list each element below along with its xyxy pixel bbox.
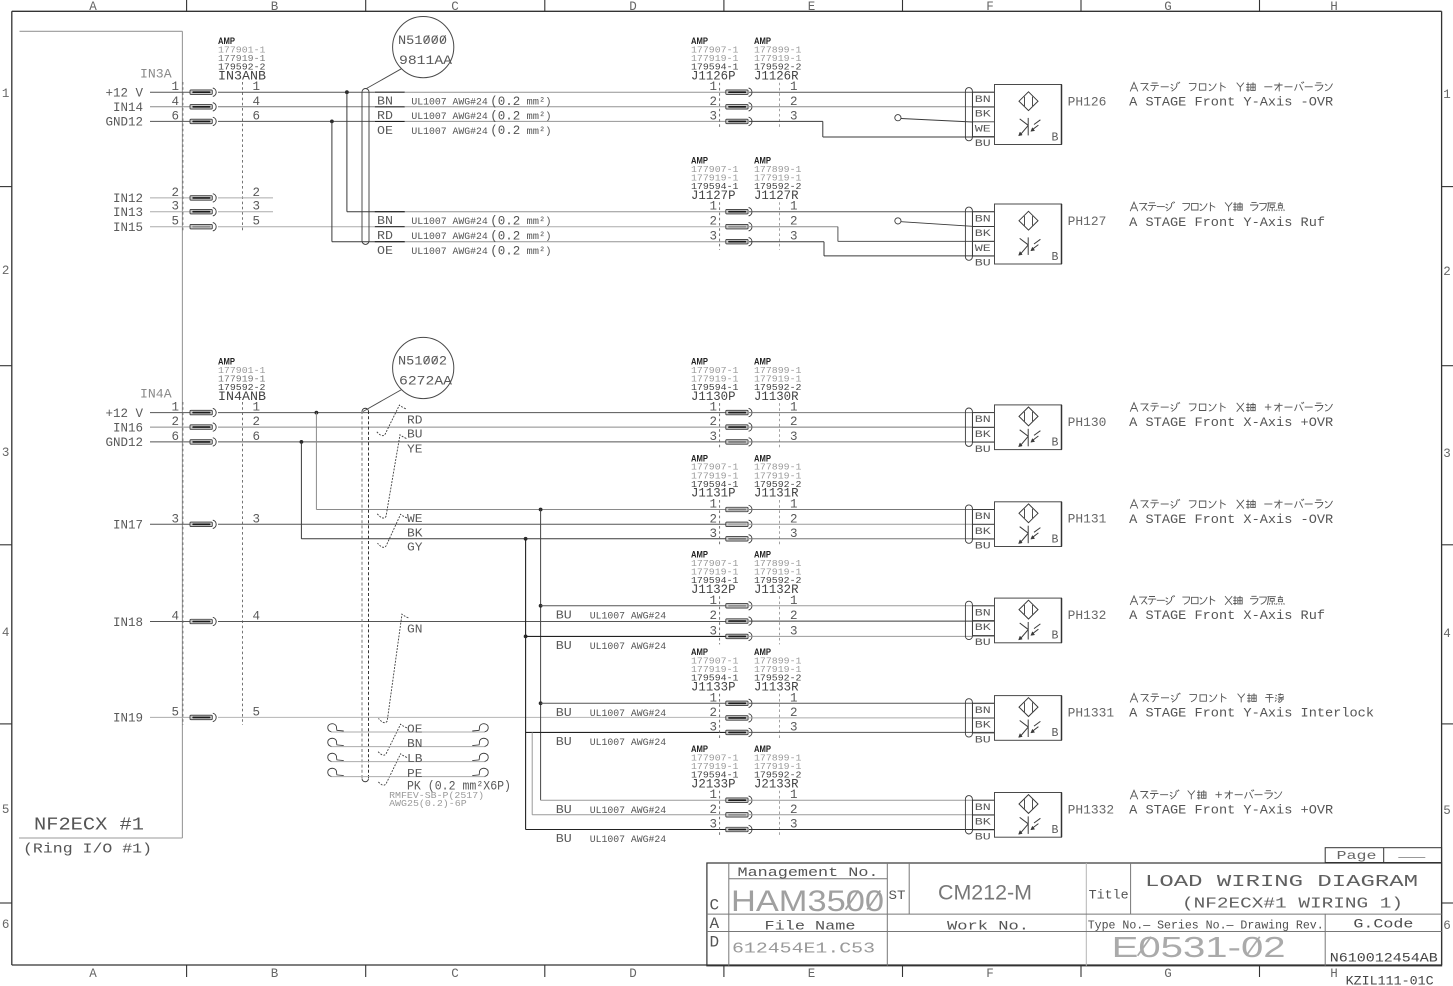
svg-text:3: 3 bbox=[171, 200, 179, 214]
svg-text:D: D bbox=[710, 934, 720, 952]
svg-text:BU: BU bbox=[556, 609, 572, 622]
svg-text:BN: BN bbox=[407, 738, 423, 751]
svg-text:KZIL111-01C: KZIL111-01C bbox=[1346, 975, 1434, 986]
svg-text:6272AA: 6272AA bbox=[399, 375, 453, 389]
svg-text:UL1007 AWG#24: UL1007 AWG#24 bbox=[411, 232, 487, 243]
svg-text:GND12: GND12 bbox=[105, 116, 143, 130]
svg-text:5: 5 bbox=[171, 215, 179, 229]
svg-text:BU: BU bbox=[556, 640, 572, 653]
svg-text:B: B bbox=[1052, 251, 1059, 264]
svg-text:3: 3 bbox=[709, 527, 717, 541]
svg-text:C: C bbox=[451, 0, 459, 14]
svg-text:BN: BN bbox=[975, 802, 991, 814]
svg-text:BN: BN bbox=[975, 414, 991, 426]
svg-text:PH126: PH126 bbox=[1068, 95, 1107, 109]
svg-text:6: 6 bbox=[2, 918, 10, 932]
svg-text:D: D bbox=[629, 0, 637, 14]
svg-text:WE: WE bbox=[407, 513, 423, 526]
svg-text:1: 1 bbox=[171, 401, 179, 415]
svg-text:PH1332: PH1332 bbox=[1068, 803, 1115, 817]
svg-text:B: B bbox=[1052, 436, 1059, 449]
svg-text:BU: BU bbox=[556, 736, 572, 749]
svg-text:A STAGE Front X-Axis Ruf: A STAGE Front X-Axis Ruf bbox=[1129, 608, 1325, 623]
svg-text:6: 6 bbox=[171, 109, 179, 123]
svg-text:BU: BU bbox=[975, 541, 991, 553]
svg-text:2: 2 bbox=[171, 186, 179, 200]
svg-text:E: E bbox=[808, 0, 816, 14]
svg-text:(0.2: (0.2 bbox=[490, 229, 520, 243]
svg-text:(Ring I/O #1): (Ring I/O #1) bbox=[23, 843, 152, 858]
svg-text:mm²): mm²) bbox=[527, 111, 552, 123]
svg-text:B: B bbox=[1052, 533, 1059, 546]
svg-text:Page: Page bbox=[1337, 849, 1377, 863]
svg-text:AWG25(0.2)-6P: AWG25(0.2)-6P bbox=[389, 798, 467, 809]
svg-text:UL1007 AWG#24: UL1007 AWG#24 bbox=[590, 806, 666, 817]
svg-text:PH127: PH127 bbox=[1068, 215, 1107, 229]
svg-text:BK: BK bbox=[975, 817, 992, 829]
svg-text:1: 1 bbox=[2, 87, 10, 101]
svg-text:5: 5 bbox=[171, 705, 179, 719]
svg-text:2: 2 bbox=[709, 215, 717, 229]
svg-text:612454E1.C53: 612454E1.C53 bbox=[732, 942, 875, 958]
svg-text:UL1007 AWG#24: UL1007 AWG#24 bbox=[590, 835, 666, 846]
svg-text:HAM3500: HAM3500 bbox=[731, 885, 884, 918]
svg-text:1: 1 bbox=[709, 200, 717, 214]
svg-text:3: 3 bbox=[709, 720, 717, 734]
svg-text:BU: BU bbox=[975, 735, 991, 747]
svg-text:RD: RD bbox=[377, 230, 393, 243]
svg-text:N51002: N51002 bbox=[398, 355, 447, 369]
svg-text:mm²): mm²) bbox=[527, 246, 552, 258]
svg-text:2: 2 bbox=[709, 95, 717, 109]
svg-text:UL1007 AWG#24: UL1007 AWG#24 bbox=[590, 709, 666, 720]
svg-text:A STAGE Front Y-Axis Interlock: A STAGE Front Y-Axis Interlock bbox=[1129, 706, 1374, 721]
svg-text:GND12: GND12 bbox=[105, 436, 143, 450]
svg-text:BN: BN bbox=[975, 213, 991, 225]
svg-text:OE: OE bbox=[377, 245, 393, 258]
svg-text:A STAGE Front Y-Axis +OVR: A STAGE Front Y-Axis +OVR bbox=[1129, 803, 1333, 818]
svg-text:3: 3 bbox=[709, 624, 717, 638]
svg-text:RD: RD bbox=[377, 110, 393, 123]
svg-text:File Name: File Name bbox=[765, 920, 856, 934]
svg-text:GN: GN bbox=[407, 623, 423, 636]
svg-text:UL1007 AWG#24: UL1007 AWG#24 bbox=[411, 98, 487, 109]
svg-text:BK: BK bbox=[975, 526, 992, 538]
svg-text:NF2ECX #1: NF2ECX #1 bbox=[34, 816, 144, 836]
svg-text:BK: BK bbox=[975, 622, 992, 634]
svg-text:1: 1 bbox=[1443, 88, 1451, 102]
svg-text:C: C bbox=[710, 897, 720, 915]
svg-text:3: 3 bbox=[171, 512, 179, 526]
svg-text:BN: BN bbox=[975, 607, 991, 619]
svg-text:GY: GY bbox=[407, 542, 423, 555]
svg-text:E: E bbox=[808, 967, 816, 981]
svg-text:1: 1 bbox=[709, 498, 717, 512]
svg-text:2: 2 bbox=[171, 415, 179, 429]
svg-text:UL1007 AWG#24: UL1007 AWG#24 bbox=[411, 217, 487, 228]
svg-text:B: B bbox=[271, 0, 279, 14]
svg-text:BN: BN bbox=[377, 215, 393, 228]
svg-text:1: 1 bbox=[709, 594, 717, 608]
svg-text:WE: WE bbox=[975, 123, 991, 135]
svg-text:4: 4 bbox=[171, 610, 179, 624]
svg-text:BU: BU bbox=[975, 831, 991, 843]
svg-text:B: B bbox=[1052, 824, 1059, 837]
svg-text:G.Code: G.Code bbox=[1353, 918, 1413, 932]
svg-text:IN16: IN16 bbox=[113, 421, 143, 435]
svg-text:BN: BN bbox=[975, 705, 991, 717]
svg-text:IN13: IN13 bbox=[113, 206, 143, 220]
svg-text:mm²): mm²) bbox=[527, 97, 552, 109]
svg-text:mm²): mm²) bbox=[527, 216, 552, 228]
svg-text:H: H bbox=[1330, 0, 1338, 14]
svg-text:ST: ST bbox=[889, 889, 907, 903]
svg-text:1: 1 bbox=[709, 788, 717, 802]
svg-text:F: F bbox=[986, 967, 994, 981]
svg-text:BU: BU bbox=[556, 707, 572, 720]
svg-text:A STAGE Front Y-Axis -OVR: A STAGE Front Y-Axis -OVR bbox=[1129, 95, 1333, 110]
svg-text:3: 3 bbox=[2, 446, 10, 460]
svg-text:Type No.— Series No.— Drawing: Type No.— Series No.— Drawing Rev. bbox=[1088, 919, 1324, 932]
svg-text:CM212-M: CM212-M bbox=[938, 882, 1032, 905]
svg-text:BK: BK bbox=[975, 109, 992, 121]
svg-text:BK: BK bbox=[407, 527, 423, 540]
svg-text:3: 3 bbox=[709, 430, 717, 444]
svg-text:(0.2: (0.2 bbox=[490, 124, 520, 138]
svg-text:3: 3 bbox=[709, 818, 717, 832]
svg-text:UL1007 AWG#24: UL1007 AWG#24 bbox=[590, 611, 666, 622]
svg-text:(0.2: (0.2 bbox=[490, 214, 520, 228]
svg-text:IN14: IN14 bbox=[113, 101, 143, 115]
svg-text:4: 4 bbox=[1443, 627, 1451, 641]
svg-text:A STAGE Front X-Axis +OVR: A STAGE Front X-Axis +OVR bbox=[1129, 415, 1333, 430]
svg-text:1: 1 bbox=[709, 80, 717, 94]
svg-text:IN17: IN17 bbox=[113, 519, 143, 533]
svg-text:3: 3 bbox=[709, 230, 717, 244]
svg-text:mm²): mm²) bbox=[527, 126, 552, 138]
svg-text:Title: Title bbox=[1089, 889, 1129, 903]
svg-text:N610012454AB: N610012454AB bbox=[1330, 952, 1439, 966]
svg-text:BU: BU bbox=[556, 804, 572, 817]
svg-text:A STAGE Front Y-Axis Ruf: A STAGE Front Y-Axis Ruf bbox=[1129, 215, 1325, 230]
svg-text:BN: BN bbox=[377, 96, 393, 109]
svg-text:YE: YE bbox=[407, 443, 423, 456]
svg-text:PH1331: PH1331 bbox=[1068, 707, 1115, 721]
svg-text:3: 3 bbox=[709, 109, 717, 123]
svg-text:B: B bbox=[1052, 132, 1059, 145]
svg-text:2: 2 bbox=[709, 803, 717, 817]
svg-text:5: 5 bbox=[2, 803, 10, 817]
svg-text:UL1007 AWG#24: UL1007 AWG#24 bbox=[411, 247, 487, 258]
svg-text:(0.2: (0.2 bbox=[490, 95, 520, 109]
svg-text:A: A bbox=[710, 915, 720, 933]
svg-text:2: 2 bbox=[709, 512, 717, 526]
svg-text:BK: BK bbox=[975, 720, 992, 732]
svg-text:A STAGE Front X-Axis -OVR: A STAGE Front X-Axis -OVR bbox=[1129, 512, 1333, 527]
svg-text:+12 V: +12 V bbox=[105, 87, 143, 101]
svg-text:N51000: N51000 bbox=[398, 34, 447, 48]
svg-text:2: 2 bbox=[2, 264, 10, 278]
svg-text:PH131: PH131 bbox=[1068, 513, 1107, 527]
svg-text:LB: LB bbox=[407, 753, 423, 766]
svg-text:B: B bbox=[1052, 727, 1059, 740]
svg-text:5: 5 bbox=[1443, 804, 1451, 818]
svg-text:F: F bbox=[986, 0, 994, 14]
svg-text:BN: BN bbox=[975, 511, 991, 523]
svg-text:B: B bbox=[1052, 630, 1059, 643]
svg-text:1: 1 bbox=[171, 80, 179, 94]
svg-text:9811AA: 9811AA bbox=[399, 54, 453, 68]
svg-text:6: 6 bbox=[171, 430, 179, 444]
svg-text:G: G bbox=[1164, 0, 1172, 14]
svg-text:(NF2ECX#1 WIRING 1): (NF2ECX#1 WIRING 1) bbox=[1182, 896, 1403, 912]
svg-text:4: 4 bbox=[171, 95, 179, 109]
svg-text:1: 1 bbox=[709, 691, 717, 705]
svg-text:BK: BK bbox=[975, 429, 992, 441]
svg-text:IN12: IN12 bbox=[113, 192, 143, 206]
svg-text:BU: BU bbox=[975, 637, 991, 649]
svg-text:BU: BU bbox=[407, 429, 423, 442]
svg-text:PH132: PH132 bbox=[1068, 609, 1107, 623]
svg-text:UL1007 AWG#24: UL1007 AWG#24 bbox=[411, 112, 487, 123]
svg-text:BU: BU bbox=[556, 833, 572, 846]
svg-text:1: 1 bbox=[709, 401, 717, 415]
svg-text:2: 2 bbox=[709, 415, 717, 429]
svg-text:IN4A: IN4A bbox=[140, 388, 172, 402]
svg-text:IN3A: IN3A bbox=[140, 68, 172, 82]
svg-text:RD: RD bbox=[407, 415, 423, 428]
svg-text:UL1007 AWG#24: UL1007 AWG#24 bbox=[590, 738, 666, 749]
svg-text:LOAD WIRING DIAGRAM: LOAD WIRING DIAGRAM bbox=[1145, 873, 1418, 892]
svg-text:PH130: PH130 bbox=[1068, 416, 1107, 430]
svg-text:BK: BK bbox=[975, 228, 992, 240]
svg-text:+12 V: +12 V bbox=[105, 407, 143, 421]
svg-text:UL1007 AWG#24: UL1007 AWG#24 bbox=[411, 127, 487, 138]
svg-text:IN19: IN19 bbox=[113, 712, 143, 726]
svg-text:mm²): mm²) bbox=[527, 231, 552, 243]
svg-text:2: 2 bbox=[709, 706, 717, 720]
svg-text:UL1007 AWG#24: UL1007 AWG#24 bbox=[590, 642, 666, 653]
svg-text:2: 2 bbox=[1443, 265, 1451, 279]
svg-text:H: H bbox=[1330, 967, 1338, 981]
svg-text:IN18: IN18 bbox=[113, 616, 143, 630]
svg-text:Work No.: Work No. bbox=[947, 920, 1029, 934]
svg-text:OE: OE bbox=[377, 125, 393, 138]
svg-text:Management No.: Management No. bbox=[738, 866, 879, 880]
svg-text:BU: BU bbox=[975, 444, 991, 456]
svg-text:4: 4 bbox=[2, 626, 10, 640]
svg-text:D: D bbox=[629, 967, 637, 981]
svg-text:3: 3 bbox=[1443, 447, 1451, 461]
svg-text:IN15: IN15 bbox=[113, 221, 143, 235]
svg-text:OE: OE bbox=[407, 723, 423, 736]
svg-text:(0.2: (0.2 bbox=[490, 244, 520, 258]
svg-text:BN: BN bbox=[975, 94, 991, 106]
svg-text:(0.2: (0.2 bbox=[490, 109, 520, 123]
svg-text:A: A bbox=[89, 967, 97, 981]
svg-text:B: B bbox=[271, 967, 279, 981]
svg-text:BU: BU bbox=[975, 258, 991, 270]
svg-text:A: A bbox=[89, 0, 97, 14]
svg-text:BU: BU bbox=[975, 138, 991, 150]
svg-text:G: G bbox=[1164, 967, 1172, 981]
svg-text:WE: WE bbox=[975, 243, 991, 255]
svg-text:6: 6 bbox=[1443, 919, 1451, 933]
svg-text:2: 2 bbox=[709, 609, 717, 623]
svg-text:C: C bbox=[451, 967, 459, 981]
